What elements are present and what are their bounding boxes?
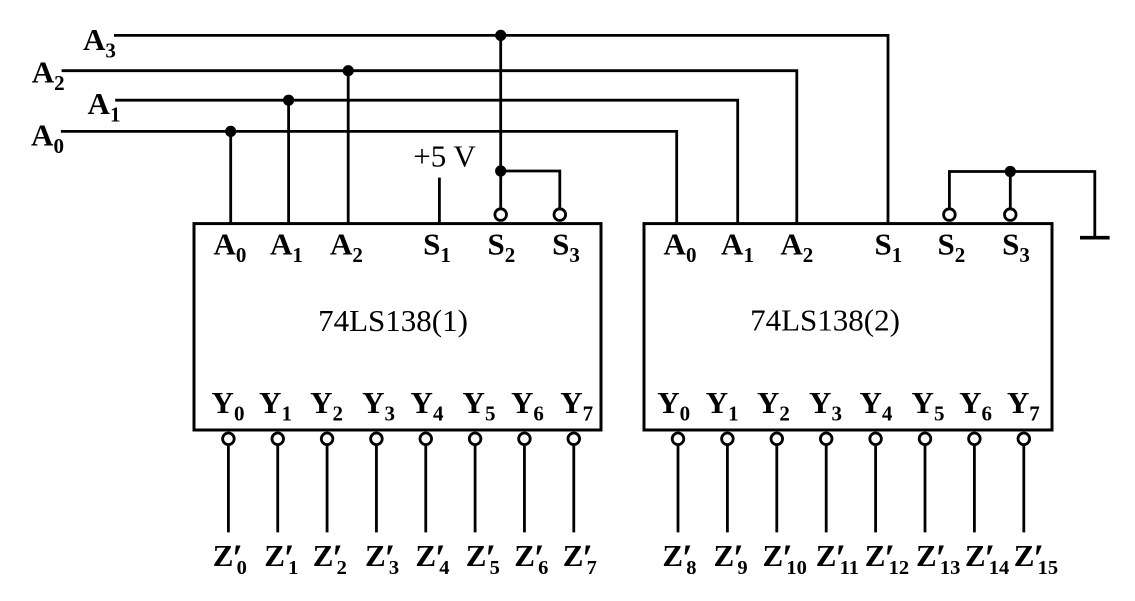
bubble U1 S2 — [495, 209, 507, 221]
wire output Z3 — [375, 446, 378, 531]
IC U1 74LS138(1) — [194, 224, 601, 430]
svg-text:+5 V: +5 V — [413, 139, 476, 174]
wire output Z2 — [326, 446, 329, 531]
bubble U2 Y3 — [820, 433, 832, 445]
wire output Z6 — [523, 446, 526, 531]
wire U1 S1 stub from +5V — [438, 179, 441, 224]
ground bar — [1080, 236, 1110, 240]
junction node U2 S3 tie — [1005, 166, 1016, 177]
bubble U1 Y3 — [371, 433, 383, 445]
wire A2 bus — [63, 71, 797, 224]
bubble U1 Y7 — [568, 433, 580, 445]
IC U2 74LS138(2) — [644, 224, 1052, 430]
wire output Z11 — [825, 446, 828, 531]
wire output Z1 — [276, 446, 279, 531]
bubble U2 Y4 — [870, 433, 882, 445]
svg-text:74LS138(2): 74LS138(2) — [750, 303, 900, 338]
wire U1 A2 stub — [347, 71, 350, 224]
wire output Z12 — [874, 446, 877, 531]
bubble U1 Y0 — [223, 433, 235, 445]
wire output Z7 — [572, 446, 575, 531]
bubble U1 Y5 — [469, 433, 481, 445]
bubble U2 S3 — [1005, 209, 1017, 221]
bubble U1 Y1 — [272, 433, 284, 445]
junction node A0-U1 — [225, 126, 236, 137]
wire A1 bus — [117, 100, 738, 223]
wire U1 A1 stub — [287, 100, 290, 223]
junction node U1 S2 tie — [495, 165, 506, 176]
wire output Z8 — [677, 446, 680, 531]
bubble U2 Y6 — [969, 433, 981, 445]
wire output Z4 — [424, 446, 427, 531]
junction node A2-U1 — [343, 65, 354, 76]
bubble U2 S2 — [944, 209, 956, 221]
wire A0 bus — [62, 131, 676, 223]
bubble U2 Y5 — [919, 433, 931, 445]
wire U1 S2-S3 tie — [501, 171, 560, 207]
wire output Z15 — [1022, 446, 1025, 531]
bubble U1 Y2 — [321, 433, 333, 445]
bubble U2 Y7 — [1018, 433, 1030, 445]
wire output Z13 — [924, 446, 927, 531]
wire U2 S2 to ground rail — [949, 172, 1094, 238]
junction node A1-U1 — [283, 95, 294, 106]
bubble U2 Y2 — [771, 433, 783, 445]
wire output Z9 — [726, 446, 729, 531]
bubble U1 Y6 — [519, 433, 531, 445]
junction node A3 branch — [495, 30, 506, 41]
bubble U2 Y1 — [722, 433, 734, 445]
bubble U1 S3 — [554, 209, 566, 221]
wire output Z10 — [775, 446, 778, 531]
wire output Z5 — [474, 446, 477, 531]
wire output Z0 — [227, 446, 230, 531]
wire output Z14 — [973, 446, 976, 531]
wire U2 S3 stub — [1009, 172, 1012, 208]
bubble U1 Y4 — [420, 433, 432, 445]
wire A3 to U1 S2 vertical — [499, 35, 502, 207]
svg-text:74LS138(1): 74LS138(1) — [318, 303, 468, 338]
wire A3 bus — [115, 35, 888, 223]
bubble U2 Y0 — [672, 433, 684, 445]
wire U1 A0 stub — [229, 131, 232, 223]
